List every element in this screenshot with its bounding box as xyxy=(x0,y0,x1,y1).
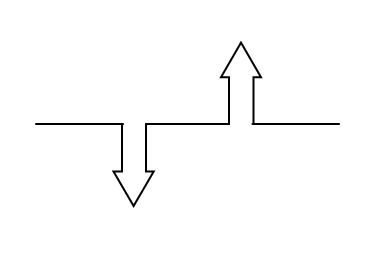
up arrow xyxy=(221,43,261,125)
wire xyxy=(253,123,340,125)
wire xyxy=(145,123,230,125)
down arrow xyxy=(114,123,154,206)
wire xyxy=(36,123,123,125)
